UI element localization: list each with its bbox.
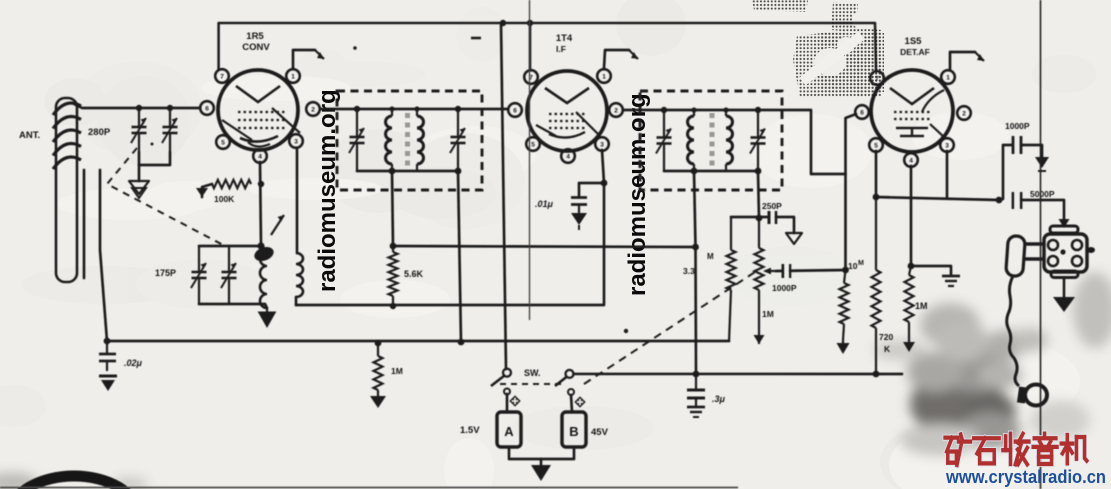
svg-text:1000P: 1000P <box>772 283 797 293</box>
phone plug <box>1006 235 1045 276</box>
wire 1000P riser <box>999 145 1012 200</box>
label 280P <box>88 127 111 138</box>
wire antenna return down <box>83 170 86 278</box>
ground 250P <box>786 233 802 244</box>
wire ground line <box>107 340 729 343</box>
wire 1R5 grid pin4 down <box>260 162 261 246</box>
wire A+ vertical from bus to switch <box>501 23 506 369</box>
svg-text:6: 6 <box>860 110 864 117</box>
svg-text:1: 1 <box>602 74 606 81</box>
resistor 3.3M <box>727 217 736 342</box>
oscillator coil L2b <box>296 253 303 297</box>
wire screen bypass to ground <box>911 266 951 274</box>
wire osc box top <box>199 245 261 248</box>
antenna rod <box>56 98 77 282</box>
wire 1S5 plate arrow to B+ <box>950 52 984 69</box>
node 720K bus junction <box>873 371 880 378</box>
capacitor 250P <box>769 211 794 233</box>
svg-text:CONV: CONV <box>242 42 270 53</box>
tube V3 1S5 internal electrodes <box>890 88 945 138</box>
ground 1M AVC <box>370 396 386 408</box>
label 1T4 I.F <box>556 33 573 54</box>
svg-text:3: 3 <box>600 142 604 149</box>
ground osc coil <box>259 308 276 327</box>
node T1 trims <box>354 106 461 112</box>
label ANT. <box>19 130 40 141</box>
wire detector down to bus <box>694 247 697 374</box>
ground .02u <box>99 376 117 391</box>
wire 100K left arrow <box>196 184 212 197</box>
node output 1000P junction <box>996 197 1003 204</box>
tube V1 1R5 CONV envelope <box>200 69 320 163</box>
polarity + battery B <box>574 396 585 407</box>
label 1.5V <box>460 425 480 436</box>
label 5.6K <box>404 269 424 279</box>
capacitor 1000P output <box>1013 136 1021 154</box>
svg-text:4: 4 <box>258 154 262 161</box>
wire osc coil L2b bottom to screen line <box>295 297 298 305</box>
resistor 1M AVC <box>374 343 383 396</box>
svg-text:1M: 1M <box>391 366 403 376</box>
inductor T1 secondary <box>417 109 424 171</box>
svg-text:6: 6 <box>205 106 209 113</box>
capacitor trimmer 2 <box>162 108 178 152</box>
node 1T4 plate junction <box>601 180 608 187</box>
capacitor .3u <box>687 374 705 407</box>
grey scan smudges <box>0 272 1111 489</box>
svg-text:250P: 250P <box>762 201 782 211</box>
stray mark flecks <box>151 38 629 333</box>
osc coil core arrow <box>271 215 284 235</box>
svg-text:I.F: I.F <box>556 44 566 54</box>
wire AF takeoff <box>776 270 846 271</box>
resistor 100K <box>212 180 251 188</box>
capacitor 1000P coupling <box>783 263 790 279</box>
inductor T2 secondary <box>726 110 733 171</box>
halftone stamp dots <box>752 0 884 97</box>
wire 1T4 pin3 down <box>602 150 604 183</box>
svg-text:1S5: 1S5 <box>905 36 923 47</box>
label 1M AVC <box>391 366 403 376</box>
wire T1 primary return down <box>392 171 393 246</box>
svg-text:175P: 175P <box>155 268 176 278</box>
svg-text:.01μ: .01μ <box>535 199 554 209</box>
label 1S5 DET.AF <box>900 36 930 57</box>
label 1R5 CONV <box>242 31 270 53</box>
svg-text:4: 4 <box>909 158 913 165</box>
wire switch to battery B <box>571 395 572 412</box>
wiper arrow volume <box>763 268 776 275</box>
oscillator coil core blob <box>252 244 275 263</box>
oscillator coil L2a <box>260 252 267 308</box>
wire T1 top line <box>320 108 508 111</box>
node .3u junction <box>693 371 700 378</box>
label 10M <box>848 260 864 271</box>
switch SW pole 2 <box>555 370 574 395</box>
svg-text:M: M <box>858 260 864 267</box>
svg-text:K: K <box>884 344 891 354</box>
T1 core dotted line <box>405 113 410 166</box>
wire 1T4 plate arrow to B+ <box>604 50 638 68</box>
svg-text:7: 7 <box>875 76 879 83</box>
label 5000P <box>1030 189 1055 199</box>
svg-text:10: 10 <box>848 261 858 271</box>
wire T1 bottom line <box>357 170 458 173</box>
capacitor 175P trimmer <box>191 246 207 304</box>
svg-text:2: 2 <box>311 107 315 114</box>
svg-text:280P: 280P <box>88 127 111 138</box>
battery A 1.5V <box>497 412 521 447</box>
resistor 1M output <box>903 266 915 352</box>
node 5.6K bottom <box>390 303 396 309</box>
capacitor T2 primary trimmer <box>656 110 672 171</box>
svg-text:M: M <box>707 252 714 261</box>
node T1 bottom <box>389 168 462 175</box>
node screen bypass junction <box>908 263 915 270</box>
wire 1S5 grid pin6 <box>846 114 857 270</box>
stamp arc bottom left <box>11 476 137 489</box>
tube V1 1R5 internal electrodes <box>222 86 300 147</box>
capacitor 5000P output <box>1013 191 1021 210</box>
node grid RC junction <box>842 267 849 274</box>
wire 1000P to ground <box>1021 145 1042 157</box>
wire to tuner ground <box>138 165 141 181</box>
scan fold line right <box>1040 0 1042 489</box>
svg-text:ANT.: ANT. <box>19 130 40 141</box>
node bus to A+ vertical junction <box>500 20 506 26</box>
resistor 5.6K <box>389 246 398 306</box>
polarity + battery A <box>509 395 520 406</box>
wire top B+ bus <box>219 23 876 71</box>
wire to phone jack <box>1021 200 1070 228</box>
inductor T1 primary <box>386 109 393 171</box>
wire switch to battery A <box>506 394 509 412</box>
scan fold line center <box>529 0 531 320</box>
wire screen line <box>296 183 604 305</box>
svg-text:5000P: 5000P <box>1030 189 1055 199</box>
tube V3 1S5 envelope <box>855 70 971 167</box>
battery B 45V <box>562 412 586 447</box>
label .3u <box>712 394 726 404</box>
node 5.6K top <box>390 243 397 250</box>
wire 1S5 pin5 down <box>875 151 878 197</box>
wire battery commons <box>509 447 574 459</box>
node output left <box>873 194 880 201</box>
wire 1S5 pin4 down <box>910 166 913 266</box>
wire 1R5 pin3 to osc coil <box>296 148 299 253</box>
svg-text:1T4: 1T4 <box>556 33 573 44</box>
svg-text:6: 6 <box>513 108 517 115</box>
wire diode load top <box>731 216 768 219</box>
svg-text:1M: 1M <box>762 309 774 319</box>
dashed link volume to switch <box>584 272 755 384</box>
ground .01u <box>571 213 587 230</box>
capacitor T2 secondary trimmer <box>750 110 766 171</box>
svg-text:www.crystalradio.cn: www.crystalradio.cn <box>945 466 1106 487</box>
tube V2 1T4 envelope <box>508 69 623 163</box>
svg-text:5: 5 <box>531 142 535 149</box>
watermark radiomuseum.org left <box>314 89 341 292</box>
svg-text:.3μ: .3μ <box>712 394 726 404</box>
capacitor .01u <box>571 198 587 214</box>
dashed gang link tuning <box>107 148 225 246</box>
node osc grid junction <box>257 242 264 249</box>
node trimmer2 top <box>167 105 173 111</box>
capacitor 280P trimmer <box>131 108 147 152</box>
label 45V <box>591 427 609 438</box>
potentiometer 1M volume <box>754 218 765 344</box>
watermark www.crystalradio.cn <box>945 466 1106 487</box>
svg-text:DET.AF: DET.AF <box>900 47 930 57</box>
node T1 secondary ground junction <box>458 339 465 346</box>
ground 1000P <box>1035 157 1049 171</box>
svg-text:1R5: 1R5 <box>246 31 264 42</box>
svg-text:4: 4 <box>566 154 570 161</box>
ground phone jack <box>1053 278 1075 312</box>
label 720K <box>879 332 893 354</box>
wire antenna top to grid line <box>74 104 200 108</box>
svg-text:3.3: 3.3 <box>683 266 695 276</box>
capacitor T1 secondary trimmer <box>450 109 466 171</box>
wire T2 bottom line <box>664 170 758 173</box>
node detector AVC junction <box>692 244 699 251</box>
node T2 bottom <box>691 168 762 175</box>
svg-text:3: 3 <box>945 143 949 150</box>
svg-text:2: 2 <box>614 108 618 115</box>
svg-text:100K: 100K <box>214 194 235 204</box>
wire 1R5 plate arrow to B+ <box>293 50 324 68</box>
svg-text:B: B <box>569 424 578 439</box>
wire battery center tap <box>540 459 543 465</box>
label 1000P coupling <box>772 283 797 293</box>
phone cord <box>1007 276 1019 386</box>
ground tuner <box>129 181 149 198</box>
node .02u junction <box>104 338 111 345</box>
tube V2 1T4 internal electrodes <box>536 88 600 138</box>
antenna coil L1 <box>53 103 81 169</box>
svg-text:A: A <box>504 424 514 439</box>
label 3.3M <box>683 252 714 276</box>
capacitor osc trimmer 2 <box>221 246 237 304</box>
node 100K right <box>258 181 264 187</box>
label 250P <box>762 201 782 211</box>
wire A- bus <box>574 373 903 376</box>
capacitor .02u <box>99 341 116 371</box>
svg-text:1000P: 1000P <box>1005 121 1030 131</box>
node diode load junction <box>756 215 763 222</box>
ground .3u <box>687 407 705 417</box>
wire T2 secondary return down <box>758 171 759 218</box>
svg-text:radiomuseum.org: radiomuseum.org <box>624 93 651 296</box>
svg-text:1M: 1M <box>915 301 928 311</box>
resistor 720K <box>872 197 881 374</box>
label .02u <box>124 358 143 368</box>
wire T2 top line <box>623 110 846 174</box>
svg-text:2: 2 <box>962 111 966 118</box>
label .01u <box>535 199 554 209</box>
svg-text:5: 5 <box>221 140 225 147</box>
wire output line <box>876 197 999 200</box>
phone jack <box>1044 226 1095 278</box>
svg-text:5.6K: 5.6K <box>404 269 424 279</box>
earpiece ring <box>1017 385 1047 406</box>
resistor 10M grid leak <box>837 270 850 354</box>
switch SW pole 1 <box>491 369 511 395</box>
label 1M output <box>915 301 928 311</box>
svg-text:45V: 45V <box>591 427 609 438</box>
ground screen bypass <box>942 276 960 286</box>
node bus to 1T4 pin7 junction <box>527 20 533 70</box>
capacitor T1 primary trimmer <box>349 109 365 171</box>
label 100K <box>214 194 235 204</box>
wire trimmer bottoms join <box>139 152 170 165</box>
T2 core dotted line <box>710 113 715 166</box>
watermark Chinese crystalradio <box>945 434 1087 465</box>
wire 1S5 pin3 down <box>946 151 949 197</box>
svg-text:7: 7 <box>220 74 224 81</box>
node 280P top <box>136 105 142 111</box>
wire osc box bottom <box>199 304 267 308</box>
label 175P <box>155 268 176 278</box>
wire AVC line <box>393 246 696 247</box>
wire .01u branch <box>579 183 604 196</box>
dashed switch gang link <box>500 383 564 385</box>
svg-text:1: 1 <box>946 75 950 82</box>
wire T2 primary return down <box>694 171 696 247</box>
svg-text:.02μ: .02μ <box>124 358 143 368</box>
wire T1 secondary return down <box>458 171 461 342</box>
svg-text:720: 720 <box>879 332 893 342</box>
node T2 trims <box>661 107 761 113</box>
bottom border line <box>0 487 738 489</box>
IF transformer T2 shield box <box>640 91 782 190</box>
inductor T2 primary <box>688 110 695 171</box>
wire antenna frame to .02u junction <box>100 170 107 341</box>
node 1M AVC junction <box>375 340 382 347</box>
label 1M volume <box>762 309 774 319</box>
svg-text:SW.: SW. <box>524 368 541 378</box>
ground battery <box>531 465 551 481</box>
svg-text:3: 3 <box>294 139 298 146</box>
label SW. <box>524 368 541 378</box>
label 1000P output <box>1005 121 1030 131</box>
watermark radiomuseum.org right <box>624 93 651 296</box>
IF transformer T1 shield box <box>337 91 482 190</box>
svg-text:5: 5 <box>874 143 878 150</box>
svg-text:1: 1 <box>291 74 295 81</box>
svg-text:1.5V: 1.5V <box>460 425 480 436</box>
